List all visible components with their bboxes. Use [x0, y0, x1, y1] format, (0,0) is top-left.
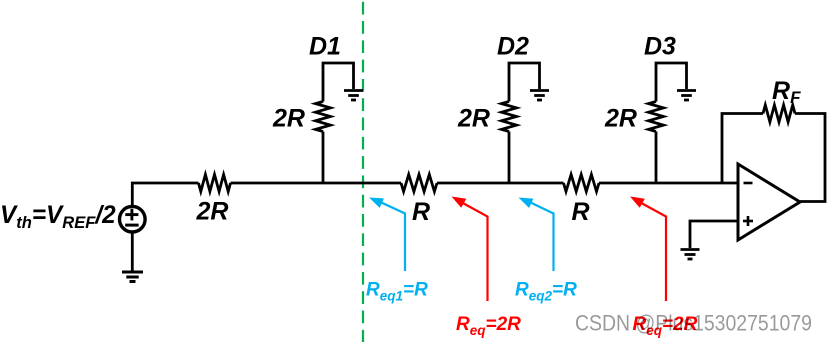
pin + (non-inverting input mark) [743, 216, 753, 226]
svg-text:D3: D3 [644, 33, 676, 61]
wire: D1 branch bottom [322, 132, 325, 184]
wire: D3 branch top to switch ground [656, 63, 687, 102]
resistor 2R (input, series) [199, 175, 231, 192]
ground (D2 switch) [530, 91, 549, 101]
svg-text:2R: 2R [272, 105, 305, 133]
svg-text:Vth=VREF/2: Vth=VREF/2 [0, 202, 116, 232]
svg-text:2R: 2R [457, 105, 490, 133]
cut line (dashed marker) [362, 0, 364, 342]
resistor R (series 2) [564, 175, 600, 192]
resistor R (series 1) [401, 175, 437, 192]
ground (op-amp + input) [681, 250, 700, 260]
wire: node B segment (R1 to R2) [437, 182, 564, 185]
voltage source Vth [120, 206, 146, 232]
svg-text:D2: D2 [497, 33, 529, 61]
svg-text:2R: 2R [196, 198, 229, 226]
resistor RF (feedback) [763, 105, 795, 122]
wire: D1 branch top to switch ground [323, 63, 354, 102]
svg-text:RF: RF [772, 77, 801, 107]
wire: non-inverting input to ground [690, 221, 738, 248]
wire: D3 branch bottom [655, 132, 658, 184]
svg-text:Req=2R: Req=2R [456, 314, 521, 338]
wire: feedback right riser to output [795, 114, 825, 202]
wire: D2 branch top to switch ground [509, 63, 540, 102]
wire: node A segment (2R to R1) [231, 182, 402, 185]
wire: source bottom [131, 232, 134, 272]
annotation arrow Req=2R right (red) [630, 197, 666, 302]
wire: feedback left riser [722, 114, 763, 184]
ground (source) [122, 272, 143, 282]
svg-text:Req1=R: Req1=R [366, 280, 428, 304]
svg-text:2R: 2R [604, 105, 637, 133]
resistor 2R (D2 branch) [502, 102, 517, 132]
svg-text:D1: D1 [309, 33, 341, 61]
resistor 2R (D1 branch) [316, 102, 331, 132]
svg-text:CSDN @Plus15302751079: CSDN @Plus15302751079 [575, 311, 812, 336]
label Vth=VREF/2 [0, 202, 116, 232]
svg-text:R: R [572, 198, 590, 226]
resistor 2R (D3 branch) [649, 102, 664, 132]
wire: source top to first resistor [132, 183, 198, 207]
pin - (inverting input mark) [744, 182, 753, 185]
wire: node C segment (R2 to op-amp) [599, 182, 738, 185]
annotation arrow Req1 (cyan) [369, 198, 405, 272]
svg-text:Req2=R: Req2=R [515, 280, 577, 304]
svg-text:R: R [412, 198, 430, 226]
ground (D1 switch) [344, 91, 363, 101]
ground (D3 switch) [677, 91, 696, 101]
annotation arrow Req=2R left (red) [452, 197, 488, 302]
op-amp U1 [738, 164, 800, 240]
annotation arrow Req2 (cyan) [519, 198, 554, 272]
wire: D2 branch bottom [508, 132, 511, 184]
